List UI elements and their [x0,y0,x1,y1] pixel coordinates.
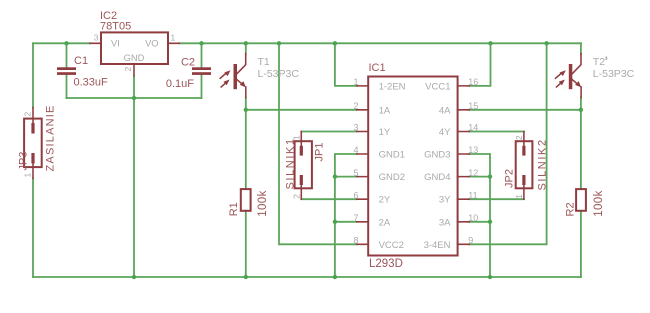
svg-text:4Y: 4Y [439,127,451,138]
wire R1 to GND rail [245,211,247,277]
wire net VCC top rail [33,42,581,44]
svg-text:1: 1 [23,173,33,178]
svg-text:SILNIK1: SILNIK1 [285,137,297,189]
svg-text:2: 2 [123,67,133,72]
svg-text:ZASILANIE: ZASILANIE [45,104,57,171]
svg-text:2: 2 [23,112,33,117]
svg-text:3: 3 [353,123,358,133]
svg-text:3-4EN: 3-4EN [424,240,451,251]
svg-text:L-53P3C: L-53P3C [258,68,300,80]
svg-text:8: 8 [353,236,358,246]
wire T1 collector to rail [245,43,247,53]
wire GND vertical left pins 4,5,7 [335,154,357,277]
wire T2 emitter to node B [580,98,582,110]
connector JP1 [295,132,312,200]
junction VCC1 branch [488,41,492,45]
junction C1/VCC [64,41,68,45]
svg-text:IC1: IC1 [369,62,386,74]
junction 3-4EN branch [544,41,548,45]
wire JP1 pin2 to IC1 pin6 2Y [301,198,357,200]
wire node B down to R2 [580,110,582,189]
svg-text:GND2: GND2 [379,172,405,183]
wire mid GND rail [67,97,202,99]
wire node A down to R1 [245,110,247,189]
junction 1-2EN branch [333,41,337,45]
wire C2 bottom [201,75,203,98]
wire VCC to IC1 pin9 3-4EN [469,43,546,244]
svg-text:5: 5 [353,168,358,178]
junction R1 / bottom rail [244,275,248,279]
wire IC1 pin14 4Y to JP2 [469,131,524,133]
svg-text:1: 1 [353,77,358,87]
svg-text:3Y: 3Y [439,195,451,206]
svg-text:4A: 4A [439,105,451,116]
svg-text:C2: C2 [181,57,195,69]
svg-text:100k: 100k [593,190,605,217]
wire C1 top [66,43,68,67]
svg-text:R2: R2 [565,202,577,216]
wire T1 emitter to node A [245,98,247,110]
svg-text:GND3: GND3 [424,150,450,161]
junction GND4 pin12 [488,174,492,178]
svg-text:JP3: JP3 [18,152,30,171]
svg-text:11: 11 [468,190,477,200]
svg-text:12: 12 [468,168,478,178]
svg-text:9: 9 [468,236,473,246]
svg-text:10: 10 [468,213,478,223]
junction node B [579,108,583,112]
capacitor C2 [192,67,211,75]
svg-text:R1: R1 [228,202,240,216]
svg-text:T2: T2 [593,56,605,68]
junction IC2 GND / mid rail [132,96,136,100]
capacitor C1 [57,67,76,75]
svg-text:L293D: L293D [369,258,403,270]
svg-text:C1: C1 [74,55,88,67]
svg-text:SILNIK2: SILNIK2 [537,138,549,190]
wire T2 collector to rail [580,43,582,53]
svg-text:JP2: JP2 [504,169,516,188]
svg-text:2A: 2A [379,217,391,228]
wire IC2 GND down to rail [133,76,135,277]
svg-text:7: 7 [353,213,358,223]
svg-text:100k: 100k [257,190,269,217]
svg-text:4: 4 [353,145,358,155]
junction GND2 pin5 [333,174,337,178]
junction C2/VCC [199,41,203,45]
junction node A [244,108,248,112]
svg-text:78T05: 78T05 [100,21,131,33]
resistor R2 [576,189,586,211]
wire VCC to IC1 pin16 VCC1 [469,43,490,86]
wire VCC to IC1 pin1 1-2EN [335,43,357,86]
svg-text:1-2EN: 1-2EN [379,81,406,92]
phototransistor T2 [556,54,582,98]
svg-text:13: 13 [468,145,478,155]
T2 apostrophe mark [606,57,608,60]
phototransistor T1 [220,54,246,98]
svg-text:0.1uF: 0.1uF [166,78,194,90]
svg-text:T1: T1 [258,56,270,68]
svg-text:2: 2 [292,194,302,199]
resistor R1 [241,189,251,211]
junction VCC2 branch [277,41,281,45]
svg-text:0.33uF: 0.33uF [74,77,109,89]
svg-text:1: 1 [514,194,524,199]
svg-text:JP1: JP1 [314,143,326,162]
wire C2 top [201,43,203,67]
junction T1 collector/VCC [244,41,248,45]
svg-text:GND: GND [124,53,145,63]
svg-text:3A: 3A [439,217,451,228]
svg-text:VCC1: VCC1 [425,81,450,92]
svg-text:VO: VO [145,38,158,48]
svg-text:14: 14 [468,123,478,133]
motor driver IC1 L293D [357,77,469,256]
junction IC2 GND / bottom rail [132,275,136,279]
wire bottom GND rail [33,276,581,278]
svg-text:L-53P3C: L-53P3C [593,68,635,80]
svg-text:2: 2 [353,101,358,111]
svg-text:2: 2 [514,135,524,140]
wire IC1 pin11 3Y to JP2 [469,198,524,200]
wire JP3 pin1 down to GND rail [32,178,34,277]
wire R2 to GND rail [580,211,582,277]
svg-text:1Y: 1Y [379,127,391,138]
wire left vertical top rail to JP3 [32,43,34,107]
svg-text:VCC2: VCC2 [379,240,404,251]
connector JP2 [516,132,533,200]
wire IC1 pin15 4A to node B [469,109,581,111]
junction 3A pin10 [488,220,492,224]
junction GND right vertical / bottom rail [488,275,492,279]
wire VCC to IC1 pin8 VCC2 [279,43,357,244]
wire C1 bottom [66,75,68,98]
wire JP1 pin1 to IC1 pin3 1Y [301,131,357,133]
wire GND vertical right pins 13,12,10 [469,154,490,277]
svg-text:VI: VI [111,38,120,48]
svg-text:15: 15 [468,101,478,111]
svg-text:2Y: 2Y [379,195,391,206]
svg-text:GND1: GND1 [379,150,405,161]
svg-text:16: 16 [468,77,478,87]
voltage regulator IC2 78T05 [90,32,179,76]
wire node A to IC1 pin2 [246,109,357,111]
connector JP3 [24,108,42,179]
junction GND left vertical / bottom rail [333,275,337,279]
junction 2A pin7 [333,220,337,224]
svg-text:1A: 1A [379,105,391,116]
svg-text:GND4: GND4 [424,172,450,183]
svg-text:3: 3 [94,33,99,43]
svg-text:1: 1 [171,33,176,43]
svg-text:6: 6 [353,190,358,200]
